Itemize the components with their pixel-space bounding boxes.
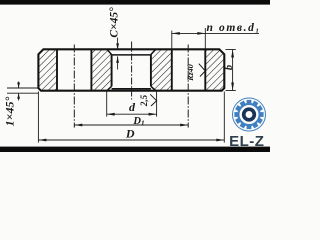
hatched section: column between bore and right bolt hole: [151, 49, 172, 90]
svg-text:Rz40: Rz40: [186, 64, 195, 81]
dimension d: right arrow: [149, 113, 157, 116]
bore top-right chamfer: [151, 49, 156, 54]
chamfer dim 1x45: extension line lower: [7, 92, 38, 94]
dimension b: top arrow: [231, 50, 234, 58]
chamfer dim C x45: upper leader with down arrow: [117, 38, 119, 50]
roughness Rz40 check mark on right bolt hole wall: [199, 64, 206, 77]
svg-text:C×45°: C×45°: [109, 7, 121, 38]
dimension b: line: [232, 50, 234, 91]
dimension D: right arrow: [216, 139, 224, 142]
bore bottom-right chamfer: [151, 86, 156, 90]
left bolt hole center line: [73, 45, 75, 128]
dimension D1: line: [74, 124, 188, 126]
EL-Z logo: navy hub ring: [244, 109, 255, 120]
dimension d: extension line left: [106, 91, 108, 116]
left bolt hole wall left: [56, 49, 58, 90]
bore bottom-left chamfer: [107, 86, 112, 90]
dimension n otv d1: left arrow: [172, 32, 180, 35]
dimension d: extension line right: [156, 91, 158, 116]
dimension d: line: [107, 113, 157, 115]
EL-Z logo gear: outer circle: [233, 98, 266, 131]
EL-Z logo gear: teeth: [234, 100, 263, 129]
bore top chamfer edge line: [112, 54, 151, 56]
dimension D1: left arrow: [74, 124, 82, 127]
dimension D: extension line left: [37, 92, 39, 143]
svg-text:2,5: 2,5: [139, 94, 149, 107]
dimension n otv d1: right arrow: [197, 32, 205, 35]
right bolt hole center line: [187, 45, 189, 128]
dimension D: extension line right: [223, 92, 225, 143]
hatched section: column between left bolt hole and bore: [91, 49, 111, 90]
svg-text:D: D: [125, 127, 135, 141]
dimension D: line: [38, 139, 224, 141]
dimension n otv d1: line with shelf: [172, 32, 259, 34]
chamfer dim C x45: lower up arrow: [117, 56, 119, 69]
chamfer dim 1x45: upper arrow: [18, 82, 20, 89]
roughness 2,5 check mark on d extension line: [150, 94, 156, 106]
dimension b: extension line bottom: [226, 90, 236, 92]
hatched section: left rim column: [38, 49, 57, 90]
right bolt hole wall right: [204, 49, 206, 90]
dimension n otv d1: extension line right: [204, 28, 206, 49]
bore left wall: [111, 55, 113, 87]
left bolt hole wall right: [90, 49, 92, 90]
dimension D: left arrow: [38, 139, 46, 142]
chamfer dim 1x45: lower arrow: [18, 93, 20, 100]
chamfer dim 1x45: extension line upper: [7, 87, 38, 89]
dimension b: bottom arrow: [231, 83, 234, 91]
svg-text:n отв.d1: n отв.d1: [207, 22, 261, 35]
right bolt hole wall left: [171, 49, 173, 90]
bore right wall: [150, 55, 152, 87]
svg-text:1×45°: 1×45°: [3, 96, 17, 126]
bottom border bar: [0, 147, 270, 152]
svg-text:EL-Z: EL-Z: [229, 133, 264, 150]
main axis center line: [131, 42, 133, 100]
hatched section: right rim column: [205, 49, 224, 90]
dimension n otv d1: extension line left: [171, 31, 173, 49]
bore top-left chamfer: [107, 49, 112, 54]
EL-Z logo gear: ring body: [238, 104, 259, 125]
dimension b: extension line top: [226, 49, 236, 51]
dimension D1: right arrow: [180, 124, 188, 127]
bore bottom chamfer edge line: [112, 88, 151, 90]
svg-text:b: b: [224, 65, 235, 70]
flange outer contour with corner chamfers: [38, 49, 224, 90]
top border bar: [0, 0, 270, 5]
svg-text:d: d: [129, 100, 136, 114]
dimension d: left arrow: [107, 113, 115, 116]
